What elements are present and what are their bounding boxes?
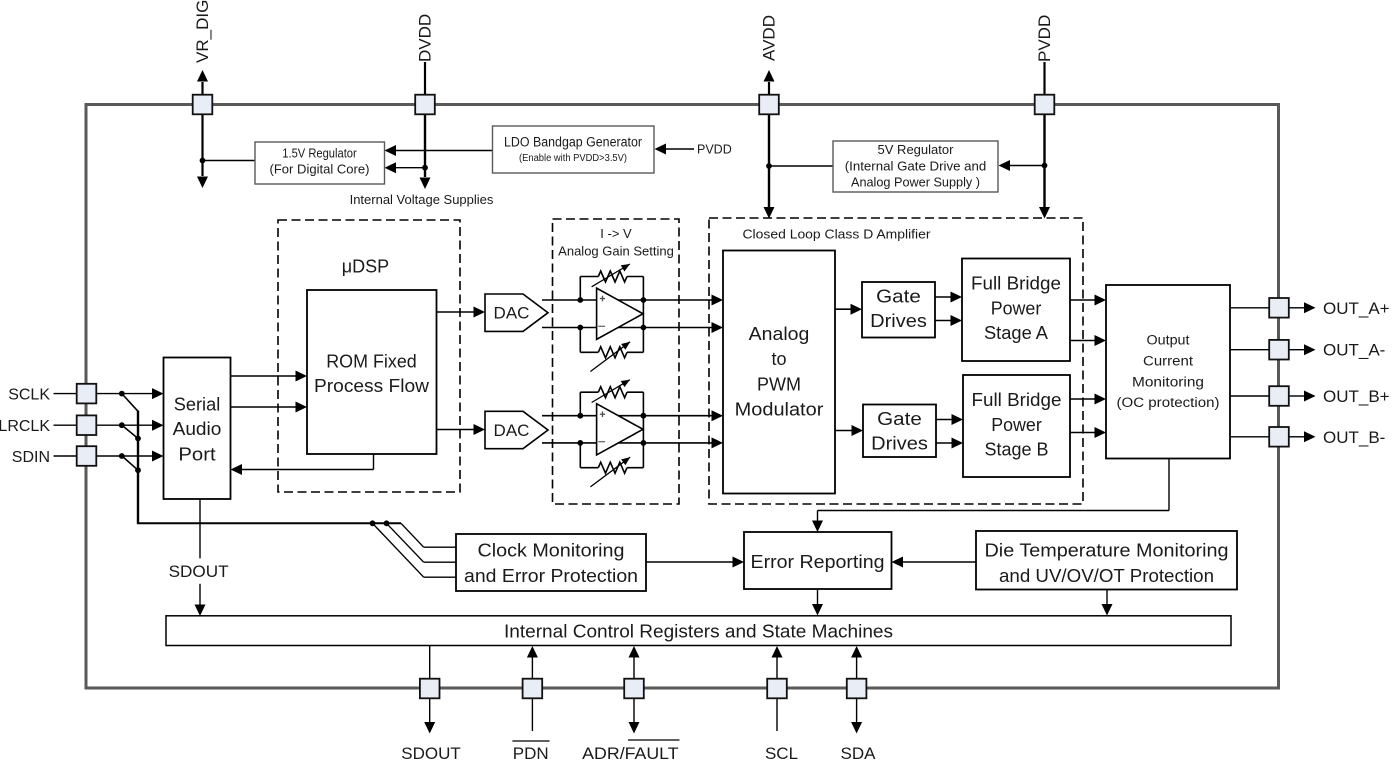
- svg-text:Audio: Audio: [173, 419, 222, 439]
- svg-text:Closed Loop Class D Amplifier: Closed Loop Class D Amplifier: [743, 227, 932, 242]
- svg-text:5V Regulator: 5V Regulator: [878, 142, 955, 157]
- svg-text:Drives: Drives: [871, 434, 928, 454]
- svg-text:PDN: PDN: [513, 744, 549, 763]
- svg-text:Analog Gain Setting: Analog Gain Setting: [558, 244, 674, 259]
- svg-text:Process Flow: Process Flow: [314, 376, 430, 396]
- svg-text:Analog Power Supply ): Analog Power Supply ): [851, 175, 980, 190]
- svg-text:(Enable with PVDD>3.5V): (Enable with PVDD>3.5V): [519, 153, 627, 164]
- svg-text:LRCLK: LRCLK: [0, 418, 50, 435]
- svg-text:SDA: SDA: [841, 744, 877, 763]
- svg-text:Monitoring: Monitoring: [1132, 375, 1204, 390]
- svg-text:SCL: SCL: [765, 744, 798, 763]
- svg-text:Gate: Gate: [876, 287, 921, 307]
- svg-text:Serial: Serial: [174, 395, 221, 415]
- svg-text:Clock Monitoring: Clock Monitoring: [478, 541, 625, 561]
- svg-text:ADR/FAULT: ADR/FAULT: [582, 744, 678, 763]
- svg-text:Power: Power: [991, 299, 1042, 319]
- svg-text:DAC: DAC: [494, 304, 530, 323]
- svg-text:SCLK: SCLK: [8, 387, 50, 404]
- svg-text:(For Digital Core): (For Digital Core): [270, 162, 370, 177]
- svg-text:ROM Fixed: ROM Fixed: [326, 352, 417, 372]
- svg-text:Port: Port: [178, 445, 215, 465]
- svg-text:Power: Power: [991, 415, 1042, 435]
- svg-text:1.5V Regulator: 1.5V Regulator: [282, 146, 357, 161]
- svg-text:Output: Output: [1147, 333, 1190, 348]
- svg-text:I -> V: I -> V: [600, 226, 632, 241]
- svg-text:Analog: Analog: [749, 324, 810, 344]
- svg-text:AVDD: AVDD: [760, 15, 779, 61]
- svg-text:OUT_B-: OUT_B-: [1323, 428, 1385, 447]
- svg-text:Stage B: Stage B: [985, 440, 1049, 460]
- svg-text:DAC: DAC: [494, 421, 530, 440]
- svg-text:Error Reporting: Error Reporting: [751, 552, 885, 572]
- svg-text:SDIN: SDIN: [12, 449, 50, 466]
- svg-text:Stage A: Stage A: [984, 323, 1048, 343]
- svg-text:and Error Protection: and Error Protection: [464, 566, 638, 586]
- svg-text:VR_DIG: VR_DIG: [193, 0, 212, 63]
- svg-text:OUT_A+: OUT_A+: [1323, 299, 1390, 318]
- svg-text:PWM: PWM: [757, 375, 801, 395]
- svg-text:μDSP: μDSP: [342, 257, 389, 277]
- svg-text:Modulator: Modulator: [735, 400, 824, 420]
- svg-text:Current: Current: [1143, 354, 1193, 369]
- svg-text:SDOUT: SDOUT: [401, 744, 461, 763]
- svg-text:PVDD: PVDD: [1035, 15, 1054, 62]
- svg-text:to: to: [771, 349, 786, 369]
- svg-text:Internal Voltage Supplies: Internal Voltage Supplies: [350, 192, 494, 207]
- svg-text:SDOUT: SDOUT: [169, 562, 229, 581]
- svg-text:Full Bridge: Full Bridge: [971, 274, 1061, 294]
- svg-text:Internal Control Registers and: Internal Control Registers and State Mac…: [504, 622, 893, 642]
- svg-text:and UV/OV/OT Protection: and UV/OV/OT Protection: [999, 566, 1214, 586]
- svg-text:DVDD: DVDD: [416, 14, 435, 62]
- svg-text:Die Temperature Monitoring: Die Temperature Monitoring: [985, 541, 1229, 561]
- svg-text:PVDD: PVDD: [697, 143, 732, 157]
- svg-text:Gate: Gate: [877, 409, 922, 429]
- svg-text:Drives: Drives: [870, 311, 927, 331]
- svg-text:LDO Bandgap Generator: LDO Bandgap Generator: [504, 135, 642, 150]
- svg-text:(OC protection): (OC protection): [1117, 395, 1220, 410]
- svg-text:Full Bridge: Full Bridge: [972, 390, 1062, 410]
- svg-text:OUT_B+: OUT_B+: [1323, 387, 1390, 406]
- svg-text:OUT_A-: OUT_A-: [1323, 341, 1385, 360]
- svg-text:(Internal Gate Drive and: (Internal Gate Drive and: [845, 159, 987, 174]
